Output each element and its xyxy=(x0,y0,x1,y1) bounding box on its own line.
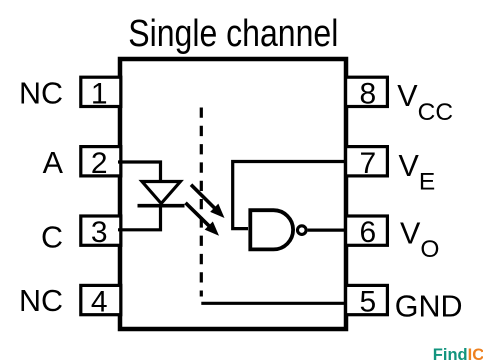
wire anode: pin 2 to LED xyxy=(118,162,161,181)
pin 8 xyxy=(346,77,388,110)
svg-text:6: 6 xyxy=(359,216,376,249)
pin 1 xyxy=(81,77,121,110)
svg-text:5: 5 xyxy=(359,286,376,319)
wire cathode: LED to pin 3 xyxy=(118,206,161,230)
svg-text:7: 7 xyxy=(359,147,376,180)
svg-text:2: 2 xyxy=(91,147,108,180)
svg-text:C: C xyxy=(41,220,63,254)
IC body U1 xyxy=(120,59,346,329)
svg-text:NC: NC xyxy=(19,284,63,318)
svg-text:Single channel: Single channel xyxy=(128,13,338,55)
svg-text:A: A xyxy=(43,146,64,180)
svg-text:1: 1 xyxy=(91,77,108,110)
svg-text:FindIC: FindIC xyxy=(433,346,483,360)
svg-text:GND: GND xyxy=(395,290,463,324)
light arrow 1 xyxy=(191,185,225,218)
pin 7 xyxy=(346,147,388,180)
detector gate U2 xyxy=(250,210,306,249)
wire ground: barrier to pin 5 xyxy=(201,302,346,305)
pin 4 xyxy=(81,285,121,318)
LED D1 xyxy=(138,182,185,206)
svg-text:3: 3 xyxy=(91,216,108,249)
light arrow 2 xyxy=(186,203,220,236)
isolation barrier dashed line xyxy=(200,108,203,297)
wire output: gate to pin 6 xyxy=(308,229,346,232)
svg-text:8: 8 xyxy=(359,77,376,110)
pin 3 xyxy=(81,216,121,249)
pin 2 xyxy=(81,147,121,180)
svg-text:NC: NC xyxy=(19,76,63,110)
wire enable: pin 7 to gate input xyxy=(233,162,346,229)
pin 5 xyxy=(346,285,388,318)
pin 6 xyxy=(346,216,388,249)
svg-text:4: 4 xyxy=(91,286,108,319)
